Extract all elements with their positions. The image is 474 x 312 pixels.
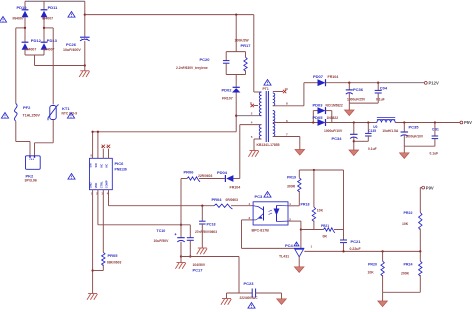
wire PC21 bottom [343,243,345,252]
resistor PR04 [212,197,239,209]
wire C135 bottom [354,136,369,141]
wire PF2 to PK2 pin1 [16,121,30,156]
capacitor PC17 [187,238,206,273]
svg-text:TC10: TC10 [157,229,166,233]
svg-text:10K: 10K [368,271,375,275]
PC3 internal phototransistor [253,206,272,221]
wire DC+ to primary top [254,15,262,92]
svg-text:C04: C04 [380,86,388,91]
wire PR06 to VDD riser [180,179,187,238]
svg-text:222/400VAC: 222/400VAC [240,296,259,300]
svg-text:1000uF/10V: 1000uF/10V [324,129,343,133]
svg-text:PD10: PD10 [17,5,28,10]
wire PC23 left [227,293,253,299]
capacitor PC23 [240,281,259,300]
svg-text:1000uF/10V: 1000uF/10V [406,135,424,139]
svg-text:PR24: PR24 [404,263,413,267]
svg-text:IN4007: IN4007 [25,48,36,52]
capacitor PC26 [63,37,90,52]
svg-text:PR06: PR06 [184,170,195,175]
svg-text:PR18: PR18 [301,203,310,207]
transformer aux winding [259,125,261,139]
wire feedback rail [304,250,420,252]
ground primary below TC10 [175,263,185,269]
wire opto pin2 down [288,221,302,248]
wire node H [299,169,343,178]
wire PR22 to rail [419,229,421,253]
svg-text:PC26: PC26 [66,42,77,47]
wire snubber drop [235,15,237,52]
wire PR18 bottom [313,221,315,230]
wire DC+ right rail [84,1,86,37]
svg-text:PC20: PC20 [200,57,211,62]
svg-text:BPC-817B: BPC-817B [252,229,270,233]
svg-text:PC36: PC36 [353,87,364,92]
svg-text:PC35: PC35 [409,125,420,130]
wire PD02 to primary pin2 [235,93,261,132]
svg-text:PIC6: PIC6 [115,161,125,166]
power port P12V [424,81,439,86]
warning triangle top left [0,17,7,23]
PIC6 pin label COMP [105,180,109,188]
wire bridge bottom rail [25,50,85,66]
wire pin6 to PD05 [273,121,318,123]
svg-text:PR21: PR21 [321,224,329,228]
transformer PT1 core [266,91,268,142]
capacitor C135 [365,123,378,152]
warning triangle left edge [1,113,8,119]
warning triangle near PK2 [68,174,75,180]
svg-text:PT1: PT1 [263,87,269,91]
PIC6 pin label SW1 [89,163,93,168]
wire divider bottom [383,275,421,301]
transformer label PT1 [263,87,269,91]
svg-text:PD03: PD03 [313,103,324,108]
wire pin5 to ground [254,139,262,151]
power port P5V [460,120,472,125]
transformer pin7 number [286,132,288,136]
transistor Q TL431 PC4 [279,242,313,267]
ground primary PC23 [221,299,231,305]
transformer secondary winding 12V [273,93,275,106]
wire snubber box top [226,52,245,61]
warning triangle near PC3 [264,192,271,198]
svg-text:COMP: COMP [105,180,109,188]
svg-text:68K/0603: 68K/0603 [107,261,121,265]
wire PD04 to PR06 [199,178,225,180]
connector PK2 [25,156,41,183]
wire 0R to PC21 column [334,170,344,240]
svg-text:KT1: KT1 [62,106,70,111]
diode PD11 [41,5,59,20]
svg-text:SW: SW [89,163,93,168]
capacitor PC35 [401,123,424,139]
wire P9V column [419,188,421,213]
wire AC node left [16,27,26,104]
capacitor PC20 [176,57,229,70]
diode PD02 [222,87,241,100]
resistor PR22 [402,211,422,230]
resistor PR21 0R [321,224,335,239]
wire VDD net [98,190,190,238]
wire COMP net [109,190,215,207]
svg-text:PD02: PD02 [222,87,233,92]
wire 0R run [301,229,324,231]
diode PD12 [22,38,42,52]
svg-text:FR104: FR104 [328,75,339,79]
svg-text:IN4007: IN4007 [13,16,24,20]
wire 5V rail A [326,121,377,123]
svg-text:P12V: P12V [429,81,439,86]
svg-text:PD05: PD05 [313,115,324,120]
wire SW net [91,131,236,159]
capacitor PC18 [195,206,217,234]
svg-text:10uF/400V: 10uF/400V [63,48,81,52]
wire opto pin3 to TL431 [242,220,295,249]
warning triangle right of bridge [68,12,75,18]
wire DC+ bus [85,13,254,15]
diode PD13 [41,38,58,52]
svg-text:10uH/1.5A: 10uH/1.5A [382,129,399,133]
svg-text:PD04: PD04 [217,170,228,175]
svg-text:PR20: PR20 [368,263,377,267]
ground primary below PC26 [79,71,89,77]
transformer pin6 number [286,119,288,123]
svg-text:KB1341-17855: KB1341-17855 [257,143,280,147]
svg-text:0.1uF: 0.1uF [376,98,385,102]
power port P9V [420,185,434,190]
fuse PF2 [15,104,41,122]
svg-text:PR17: PR17 [241,43,252,48]
wire PR18 riser [313,170,315,207]
svg-text:200K: 200K [401,272,410,276]
resistor PR05 [102,252,122,265]
capacitor PC34 [324,123,358,142]
wire snubber box bottom [226,63,245,87]
diode PD10 [13,5,29,20]
svg-text:NC: NC [105,164,109,168]
svg-text:10uF/50V: 10uF/50V [154,239,170,243]
svg-text:1N5822: 1N5822 [327,116,339,120]
transformer pin3 stub [250,101,258,107]
svg-text:10K: 10K [402,222,409,226]
svg-text:PR22: PR22 [404,211,413,215]
warning triangle below PC23 [248,303,255,309]
ground primary pin5 [248,151,258,157]
svg-text:GND: GND [89,182,93,188]
svg-text:NC: NC [99,164,103,168]
resistor PR19 [287,176,301,192]
wire pin4 net [233,125,261,179]
wire KT1 to PK2 pin2 [35,120,54,156]
svg-text:T1AL250V: T1AL250V [23,114,41,118]
ground secondary TL431 [294,267,304,273]
wire PC17 bottom [189,240,191,257]
wire PR04 to opto [231,205,253,207]
svg-text:PC21: PC21 [351,239,362,244]
optocoupler PC3 body [252,194,289,233]
PIC6 pin label SW2 [94,163,98,168]
resistor PR06 [184,170,213,182]
wire PR24 riser [419,251,421,261]
svg-text:PK-II: PK-II [30,159,35,161]
svg-text:PR04: PR04 [212,197,223,202]
wire 12V rail [326,82,425,84]
svg-text:1000uF/25V: 1000uF/25V [347,98,366,102]
PIC6 top pin numbers [91,145,109,158]
svg-text:FR104: FR104 [230,186,241,190]
svg-text:C135: C135 [368,129,376,133]
svg-text:3P/3.96: 3P/3.96 [25,179,37,183]
svg-text:10: 10 [285,87,289,91]
wire bridge right mid [43,17,45,42]
PC3 pin numbers [249,202,292,222]
resistor PR18 [301,203,324,222]
wire 5V caps gnd [404,135,435,153]
svg-text:P5V: P5V [464,120,472,125]
transformer pin4 number [251,121,253,125]
svg-text:P9V: P9V [426,185,434,190]
warning triangle near KT1 [67,113,74,119]
svg-text:PC4: PC4 [285,243,294,248]
svg-text:0.1uF: 0.1uF [430,152,439,156]
wire CTRL to PR05 [102,190,104,253]
capacitor TC10 [154,229,185,243]
wire pin8 to PD07 [273,83,318,106]
wire bridge left mid [24,17,26,42]
svg-text:104/50V: 104/50V [193,263,206,267]
svg-text:NC/1N5822: NC/1N5822 [326,104,343,108]
svg-text:PD11: PD11 [48,5,59,10]
wire primary gnd rail [181,257,239,294]
PIC6 pin label GND [89,182,93,188]
svg-text:PN8136: PN8136 [115,167,127,171]
ground secondary 5V [400,153,410,159]
ground primary below PC18 [197,248,207,254]
diode PD05 [313,115,339,126]
svg-text:IN4007: IN4007 [42,16,53,20]
thermistor KT1 [48,105,77,121]
capacitor C04 [375,83,388,102]
PIC6 pin label NC1 [99,164,103,168]
resistor PR17 [235,39,252,72]
capacitor C91 [430,123,439,156]
svg-text:PD13: PD13 [47,38,58,43]
transformer value [257,143,280,147]
svg-text:10K: 10K [317,209,324,213]
svg-text:PC18: PC18 [207,223,216,227]
warning triangle above PT1 [264,80,271,86]
wire PR20 riser [382,251,384,261]
diode PD04 [217,170,240,190]
wire PR20 bottom [382,275,384,292]
svg-text:SW: SW [94,163,98,168]
svg-text:CTRL: CTRL [99,181,103,188]
PIC6 pin label CTRL [99,181,103,188]
svg-text:PC3: PC3 [255,194,264,199]
svg-text:PD07: PD07 [313,74,324,79]
wire AC node right [43,27,53,105]
svg-text:27nF/50V/0603: 27nF/50V/0603 [195,230,217,234]
capacitor PC36 [346,83,366,102]
svg-text:22R/0603: 22R/0603 [198,174,212,178]
ground secondary divider [378,301,388,307]
wire PC23 right [256,293,282,299]
wire 5V rail B [395,121,460,123]
wire 12V cap gnd link [349,93,378,110]
svg-text:TL431: TL431 [279,255,289,259]
svg-text:FR107: FR107 [222,96,233,100]
svg-text:0.22uF: 0.22uF [350,247,362,251]
ground secondary PC23 [277,299,287,305]
svg-text:100K/2W: 100K/2W [235,39,250,43]
diode PD03 [313,103,343,123]
wire DC+ top rail [25,0,85,2]
svg-text:PC23: PC23 [244,281,255,286]
wire PD03 join [326,111,332,123]
svg-text:300R: 300R [287,185,296,189]
svg-text:0R: 0R [323,235,328,239]
wire bridge left branch upper [24,1,26,10]
svg-text:PD12: PD12 [31,38,42,43]
ground secondary PC34 [349,150,359,156]
inductor L10 [377,118,399,133]
ground primary IC [87,294,97,300]
transformer secondary winding 5V [273,111,275,137]
wire bridge right branch upper [43,1,45,10]
svg-text:VDD: VDD [94,183,98,189]
ground secondary 12V [345,110,355,116]
wire GND pin [91,190,93,294]
wire PC18 bottom [201,224,203,248]
diode PD07 [313,74,338,86]
transformer pin5 number [251,135,253,139]
svg-text:PR19: PR19 [287,176,296,180]
wire PC26 bottom [84,41,86,71]
transformer pin8 number [286,102,288,106]
svg-text:PC17: PC17 [193,268,204,273]
svg-text:C 91: C 91 [432,128,439,132]
PIC6 NC pin stubs [103,149,108,159]
PIC6 bottom pin numbers [91,192,109,196]
svg-text:2.2nF/630V_terylene: 2.2nF/630V_terylene [176,66,208,70]
no-connect X marks [102,145,111,148]
wire pin7 to ground [273,137,300,150]
transformer pin10 stub [273,87,288,93]
svg-text:PR05: PR05 [108,253,119,258]
resistor PR24 [401,261,422,276]
svg-text:PF2: PF2 [23,105,31,110]
wire opto pin1 to PR19 [288,191,299,206]
capacitor PC21 [340,239,361,251]
PIC6 pin label NC2 [105,164,109,168]
resistor PR20 [368,261,385,276]
svg-text:0.1uF: 0.1uF [368,147,377,151]
wire PR05 bottom link [93,265,104,271]
PC3 internal LED [274,206,289,222]
svg-text:PC34: PC34 [332,136,343,141]
wire PC34 bottom [353,138,355,151]
op-amp U1 PIC6 PN8136 body [90,158,127,189]
wire TC10 bottom [180,242,182,263]
transformer primary winding [259,92,261,116]
PIC6 pin label VDD [94,183,98,189]
transformer pin2 number [251,112,253,116]
svg-text:0R/0603: 0R/0603 [226,198,239,202]
ground secondary pin7 [295,150,305,156]
